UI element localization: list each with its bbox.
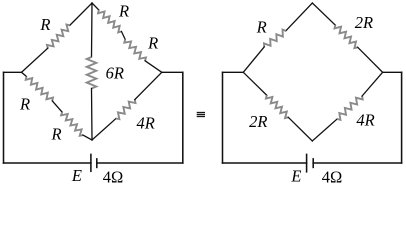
wire left node down-right — [243, 72, 266, 95]
svg-text:4R: 4R — [356, 110, 374, 129]
resistor R (upper of bottom-left arm) — [26, 77, 53, 101]
svg-text:R: R — [51, 124, 62, 143]
wire between the two series R resistors — [122, 32, 126, 40]
svg-text:R: R — [19, 94, 30, 113]
wire to bottom node — [288, 117, 312, 141]
wire to right node — [362, 72, 383, 96]
svg-text:4Ω: 4Ω — [103, 167, 124, 186]
wire right node to right rail — [162, 71, 183, 73]
svg-text:R: R — [147, 33, 158, 52]
wire between bottom-left resistors — [52, 101, 62, 112]
battery short plate left circuit — [96, 159, 98, 168]
wire bottom rail right of battery (right circuit) — [313, 162, 401, 164]
resistor 4R right circuit — [337, 96, 363, 120]
wire bottom node up-right — [92, 119, 116, 141]
wire top node toward right — [92, 3, 99, 10]
battery long plate left circuit — [90, 154, 92, 171]
wire resistor to bottom node — [83, 135, 92, 140]
resistor R right circuit — [264, 30, 286, 47]
wire top node down-right — [312, 3, 335, 25]
battery long plate right circuit — [306, 154, 308, 171]
wire 4R to right node — [135, 72, 162, 99]
wire to left node — [243, 47, 264, 72]
svg-text:E: E — [71, 166, 82, 185]
resistor R (lower of bottom-left arm) — [61, 112, 83, 136]
svg-text:2R: 2R — [249, 112, 267, 131]
svg-text:R: R — [256, 17, 267, 36]
wire right rail — [182, 72, 184, 163]
wire left rail — [3, 72, 5, 163]
wire bottom node up-right — [312, 119, 337, 141]
equivalence symbol — [197, 113, 205, 117]
resistor 2R (top-right arm) — [335, 25, 358, 48]
wire top node to upper-left resistor — [70, 3, 92, 25]
wire resistor to right node — [145, 61, 162, 73]
wire bottom rail left of battery — [4, 162, 91, 164]
wire bottom rail right of battery — [97, 162, 183, 164]
wire middle branch upper — [91, 3, 94, 57]
svg-text:R: R — [39, 15, 50, 34]
svg-text:4Ω: 4Ω — [322, 167, 343, 186]
svg-text:6R: 6R — [106, 63, 124, 82]
resistor R (upper of top-right arm) — [98, 10, 121, 32]
wire left node downward — [22, 72, 27, 76]
svg-text:E: E — [290, 166, 301, 185]
resistor 6R (bridge branch) — [87, 57, 97, 89]
wire top node down-left — [286, 3, 313, 31]
svg-text:R: R — [118, 1, 129, 20]
resistor 2R (bottom-left arm) — [266, 95, 288, 118]
wire middle branch lower — [91, 89, 94, 141]
wire bottom rail left of battery (right circuit) — [223, 162, 307, 164]
wire left node to left rail — [4, 71, 22, 73]
wire to right node — [358, 47, 383, 72]
wire resistor to left node — [22, 48, 48, 72]
battery short plate right circuit — [312, 159, 314, 168]
wire left node to left rail (right circuit) — [223, 71, 244, 73]
resistor 4R — [116, 100, 136, 120]
svg-text:4R: 4R — [137, 113, 155, 132]
resistor R (lower of top-right arm) — [124, 39, 146, 60]
wire right node to right rail (right circuit) — [383, 71, 402, 73]
wire left rail (right circuit) — [222, 72, 224, 163]
wire right rail (right circuit) — [401, 72, 403, 163]
svg-text:2R: 2R — [355, 13, 373, 32]
resistor R (top-left arm) — [47, 25, 70, 49]
